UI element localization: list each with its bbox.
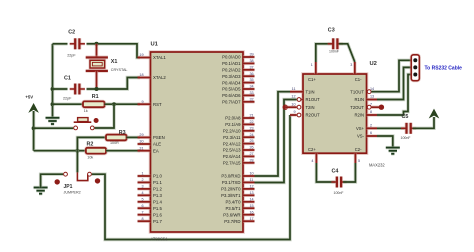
svg-text:P0.5/AD5: P0.5/AD5: [222, 87, 241, 92]
U1 pin P2.5/A13 (26) stub: [243, 148, 255, 151]
U1 pin P3.5/T1 (15) stub: [243, 206, 255, 209]
svg-text:P3.1/TXD: P3.1/TXD: [222, 180, 241, 185]
capacitor C4: [331, 177, 346, 188]
svg-text:R2: R2: [87, 141, 94, 147]
wire RST node down to button: [95, 104, 114, 128]
svg-text:33: 33: [250, 91, 254, 95]
U2 pin R1IN (13) stub: [367, 98, 378, 101]
svg-text:P3.3/INT1: P3.3/INT1: [221, 193, 241, 198]
svg-text:1: 1: [141, 172, 143, 176]
wire R2 to EA: [106, 149, 140, 152]
U1 pin P3.7/RD (17) stub: [243, 219, 255, 222]
wire +5V to button: [34, 126, 74, 129]
U1 pin P2.0/A8 (21) stub: [243, 116, 255, 119]
svg-text:+5V: +5V: [25, 95, 33, 100]
svg-text:1k: 1k: [84, 109, 88, 113]
junction +5V button node: [32, 126, 36, 130]
svg-text:35: 35: [250, 78, 254, 82]
wire GND rail left: [51, 44, 54, 118]
svg-text:R2OUT: R2OUT: [306, 113, 321, 118]
ground VS-: [386, 148, 400, 154]
push-button RESET: [74, 118, 99, 123]
U1 pin P2.7/A15 (28) stub: [243, 161, 255, 164]
svg-text:R1IN: R1IN: [354, 97, 364, 102]
svg-text:10: 10: [250, 172, 254, 176]
svg-text:JUMPER2: JUMPER2: [64, 191, 81, 195]
jumper JP1 pin 1: [64, 172, 68, 176]
svg-text:29: 29: [139, 133, 143, 137]
U1 pin P0.6/AD6 (33) stub: [243, 94, 255, 97]
svg-text:P2.4/A12: P2.4/A12: [223, 141, 241, 146]
svg-text:U2: U2: [370, 61, 377, 67]
wire T2IN dangling: [285, 105, 296, 108]
wire C2 row to XTAL1: [53, 44, 141, 58]
U1 pin P1.0 (1) stub: [138, 174, 151, 177]
svg-text:U1: U1: [151, 42, 159, 48]
power +5V arrow right: [430, 110, 439, 118]
U2 pin C1- (3) stub: [353, 62, 356, 74]
svg-text:19: 19: [139, 53, 143, 57]
svg-text:P1.5: P1.5: [153, 206, 162, 211]
svg-text:P0.4/AD4: P0.4/AD4: [222, 80, 241, 85]
svg-text:VS+: VS+: [356, 126, 365, 131]
svg-text:C1-: C1-: [355, 77, 362, 82]
wire crystal bottom lead: [95, 71, 98, 89]
junction R1 rail: [51, 102, 55, 106]
svg-text:P1.4: P1.4: [153, 200, 162, 205]
U1 pin P3.6/WR (16) stub: [243, 213, 255, 216]
connector pin 1: [413, 58, 417, 62]
jumper JP1 pin 2: [88, 172, 92, 176]
U1 pin P0.1/AD1 (38) stub: [243, 62, 255, 65]
wire R3 to PSEN: [127, 136, 141, 139]
U1 pin P0.7/AD7 (32) stub: [243, 100, 255, 103]
svg-text:P1.3: P1.3: [153, 193, 162, 198]
svg-text:100nF: 100nF: [334, 191, 344, 195]
U2 R1OUT bubble: [297, 98, 301, 102]
wire T2OUT dangling: [371, 105, 380, 108]
wire C5 to +5V: [413, 117, 434, 128]
svg-text:C1: C1: [64, 75, 71, 81]
svg-text:C5: C5: [402, 114, 409, 120]
svg-text:R1: R1: [92, 94, 99, 100]
svg-text:P1.2: P1.2: [153, 187, 162, 192]
svg-text:21: 21: [250, 114, 254, 118]
jumper JP1 bracket: [77, 172, 87, 180]
svg-text:25: 25: [250, 139, 254, 143]
svg-text:11: 11: [292, 87, 296, 91]
wire ground to JP1: [41, 174, 64, 187]
U1 pin P1.4 (5) stub: [138, 200, 151, 203]
svg-text:P0.2/AD2: P0.2/AD2: [222, 68, 241, 73]
svg-text:P3.0/RXD: P3.0/RXD: [221, 174, 240, 179]
svg-text:10: 10: [291, 102, 295, 106]
junction crystal top node: [95, 42, 99, 46]
svg-text:13: 13: [370, 95, 374, 99]
U2 pin C2+ (4) stub: [315, 153, 318, 163]
jumper JP1 pad 1: [55, 179, 60, 184]
svg-text:P0.6/AD6: P0.6/AD6: [222, 93, 241, 98]
svg-text:R1OUT: R1OUT: [306, 97, 321, 102]
U1 pin RST (9) stub: [138, 102, 151, 105]
wire rail to R1: [53, 102, 84, 105]
connector pin 2: [413, 65, 417, 69]
svg-text:PSEN: PSEN: [153, 135, 165, 140]
svg-text:JP1: JP1: [64, 184, 73, 190]
svg-text:C4: C4: [332, 168, 339, 174]
U1 pin P3.4/T0 (14) stub: [243, 200, 255, 203]
svg-text:12: 12: [250, 185, 254, 189]
dangling wire end T2OUT: [379, 105, 384, 110]
microcontroller U1 AT89C51 body: [151, 52, 244, 232]
button terminal right: [90, 126, 94, 130]
svg-text:R3: R3: [119, 130, 126, 136]
svg-text:4: 4: [141, 191, 143, 195]
svg-text:3: 3: [141, 185, 143, 189]
wire VS- to ground: [377, 136, 393, 147]
svg-text:18: 18: [139, 73, 143, 77]
svg-text:P1.0: P1.0: [153, 174, 162, 179]
svg-text:5: 5: [141, 197, 143, 201]
wire +5V stem: [32, 111, 35, 151]
U1 pin P3.0/RXD (10) stub: [243, 174, 255, 177]
U2 T2IN bubble: [297, 105, 301, 109]
svg-text:T1OUT: T1OUT: [350, 89, 364, 94]
capacitor C1: [70, 84, 85, 95]
driver U2 MAX232 body: [303, 74, 367, 153]
junction R2 R3 node: [75, 149, 79, 153]
svg-text:CRYSTAL: CRYSTAL: [111, 68, 128, 72]
svg-text:P1.1: P1.1: [153, 180, 162, 185]
svg-text:R2IN: R2IN: [354, 113, 364, 118]
U1 pin P1.6 (7) stub: [138, 213, 151, 216]
U1 pin P2.4/A12 (25) stub: [243, 142, 255, 145]
U1 pin P1.7 (8) stub: [138, 219, 151, 222]
svg-text:RST: RST: [153, 102, 162, 107]
svg-text:T2OUT: T2OUT: [350, 105, 364, 110]
svg-text:XTAL2: XTAL2: [153, 75, 166, 80]
svg-text:To RS232 Cable: To RS232 Cable: [425, 65, 463, 71]
U1 pin P1.1 (2) stub: [138, 181, 151, 184]
U2 pin VS+ (2) stub: [367, 127, 378, 130]
svg-text:EA: EA: [153, 148, 159, 153]
svg-text:P1.7: P1.7: [153, 219, 162, 224]
U1 pin P0.0/AD0 (39) stub: [243, 55, 255, 58]
U1 pin EA (31) stub: [138, 149, 151, 152]
svg-text:6: 6: [370, 131, 372, 135]
U2 T1OUT bubble: [367, 90, 371, 94]
svg-text:P0.3/AD3: P0.3/AD3: [222, 74, 241, 79]
U1 pin P2.1/A9 (22) stub: [243, 123, 255, 126]
U2 T2OUT bubble: [367, 105, 371, 109]
svg-text:MAX232: MAX232: [369, 163, 385, 168]
resistor R1: [83, 101, 105, 107]
svg-text:P2.3/A11: P2.3/A11: [223, 135, 241, 140]
svg-text:31: 31: [139, 146, 143, 150]
ground JP1: [34, 188, 48, 194]
svg-text:P2.2/A10: P2.2/A10: [223, 129, 241, 134]
wire R2IN to connector: [377, 75, 411, 116]
svg-text:8: 8: [141, 217, 143, 221]
svg-text:22: 22: [250, 120, 254, 124]
U2 pin R1OUT (12) stub: [301, 98, 303, 101]
dangling wire end T2IN: [283, 105, 288, 110]
svg-text:P2.6/A14: P2.6/A14: [223, 154, 241, 159]
wire P3.0 RXD to T1IN: [255, 92, 291, 176]
svg-text:4: 4: [311, 159, 313, 163]
svg-text:6: 6: [141, 204, 143, 208]
wire node down to JP1: [76, 151, 79, 173]
U2 R2OUT bubble: [297, 113, 301, 117]
svg-text:9: 9: [293, 110, 295, 114]
svg-text:C3: C3: [328, 28, 335, 34]
wire C1 row to XTAL2: [53, 78, 141, 90]
U1 pin P3.1/TXD (11) stub: [243, 181, 255, 184]
svg-text:24: 24: [250, 133, 254, 137]
svg-text:P2.0/A8: P2.0/A8: [225, 116, 241, 121]
svg-text:36: 36: [250, 72, 254, 76]
U2 pin C2- (5) stub: [354, 153, 357, 163]
U1 pin P3.2/INT0 (12) stub: [243, 187, 255, 190]
svg-text:26: 26: [250, 146, 254, 150]
U1 pin P0.3/AD3 (36) stub: [243, 74, 255, 77]
resistor R2: [86, 148, 106, 154]
svg-text:10k: 10k: [87, 155, 93, 159]
svg-text:C2: C2: [68, 30, 75, 36]
U1 pin P2.2/A10 (23) stub: [243, 129, 255, 132]
svg-text:T1IN: T1IN: [306, 89, 315, 94]
svg-text:XTAL1: XTAL1: [153, 55, 166, 60]
connector pin 3: [413, 73, 417, 77]
wire C4 to C2-: [343, 163, 355, 182]
svg-text:P3.2/INT0: P3.2/INT0: [221, 187, 241, 192]
svg-text:VS-: VS-: [357, 134, 365, 139]
wire C2+ to C4: [316, 163, 335, 182]
svg-text:7: 7: [141, 210, 143, 214]
svg-text:100nF: 100nF: [329, 50, 339, 54]
resistor R3: [106, 135, 127, 141]
svg-text:11: 11: [250, 178, 254, 182]
U1 pin XTAL1 (19) stub: [138, 56, 151, 59]
svg-text:100R: 100R: [110, 141, 119, 145]
svg-text:23: 23: [250, 126, 254, 130]
U1 pin P1.5 (6) stub: [138, 206, 151, 209]
svg-text:C2-: C2-: [355, 147, 362, 152]
U2 pin T1IN (11) stub: [290, 90, 303, 93]
svg-text:T2IN: T2IN: [306, 105, 315, 110]
svg-text:32: 32: [250, 97, 254, 101]
svg-text:1: 1: [311, 63, 313, 67]
svg-text:30: 30: [139, 140, 143, 144]
U1 pin P2.3/A11 (24) stub: [243, 135, 255, 138]
U2 pin VS- (6) stub: [367, 134, 378, 137]
svg-text:C1+: C1+: [308, 77, 316, 82]
junction C1 rail: [51, 87, 55, 91]
U1 pin P0.2/AD2 (37) stub: [243, 68, 255, 71]
svg-text:ALE: ALE: [153, 142, 161, 147]
wire crystal top lead: [95, 44, 98, 57]
U1 pin P1.2 (3) stub: [138, 187, 151, 190]
svg-text:14: 14: [250, 197, 254, 201]
svg-text:22pF: 22pF: [63, 96, 72, 100]
svg-text:P0.0/AD0: P0.0/AD0: [222, 55, 241, 60]
svg-text:2: 2: [370, 124, 372, 128]
wire JP1 to R2OUT long: [92, 115, 290, 240]
svg-text:13: 13: [250, 191, 254, 195]
svg-text:P0.1/AD1: P0.1/AD1: [222, 61, 241, 66]
svg-text:39: 39: [250, 53, 254, 57]
connector J1 to RS232 cable: [411, 55, 419, 81]
svg-text:12: 12: [291, 95, 295, 99]
wire +5V row to R2: [34, 149, 86, 152]
svg-text:2: 2: [141, 178, 143, 182]
U2 pin R2IN (8) stub: [367, 113, 378, 116]
power +5V arrow left: [29, 104, 38, 112]
svg-text:5: 5: [358, 159, 360, 163]
svg-text:P3.6/WR: P3.6/WR: [223, 212, 240, 217]
svg-text:16: 16: [250, 210, 254, 214]
wire R1 to RST: [105, 102, 141, 105]
junction crystal bottom node: [95, 87, 99, 91]
wire P3.1 TXD to R1OUT: [255, 100, 297, 183]
svg-text:P2.7/A15: P2.7/A15: [223, 161, 241, 166]
svg-text:9: 9: [141, 100, 143, 104]
svg-text:27: 27: [250, 152, 254, 156]
svg-text:17: 17: [250, 217, 254, 221]
svg-text:22pF: 22pF: [67, 53, 76, 57]
U2 pin R2OUT (9) stub: [290, 113, 297, 116]
button terminal left: [74, 126, 78, 130]
U1 pin ALE (30) stub: [138, 142, 151, 145]
U1 pin P0.4/AD4 (35) stub: [243, 81, 255, 84]
capacitor C2: [70, 38, 85, 49]
svg-text:P3.5/T1: P3.5/T1: [225, 206, 241, 211]
capacitor C5: [401, 123, 416, 134]
svg-text:X1: X1: [111, 59, 118, 65]
wire C3 right to pin3: [339, 44, 355, 62]
U1 pin P2.6/A14 (27) stub: [243, 155, 255, 158]
svg-text:37: 37: [250, 65, 254, 69]
svg-text:8: 8: [370, 110, 372, 114]
U1 pin P1.3 (4) stub: [138, 194, 151, 197]
jumper JP1 pad 2: [95, 178, 100, 183]
svg-text:P0.7/AD7: P0.7/AD7: [222, 100, 241, 105]
svg-text:P2.5/A13: P2.5/A13: [223, 148, 241, 153]
wire node up to R3: [77, 137, 106, 150]
svg-text:P3.4/T0: P3.4/T0: [225, 200, 241, 205]
svg-text:3: 3: [350, 63, 352, 67]
wire T1OUT to connector: [371, 60, 411, 91]
svg-text:C2+: C2+: [308, 147, 316, 152]
svg-text:P1.6: P1.6: [153, 212, 162, 217]
U1 pin P3.3/INT1 (13) stub: [243, 194, 255, 197]
crystal X1: [86, 57, 108, 71]
svg-text:38: 38: [250, 59, 254, 63]
svg-text:P3.7/RD: P3.7/RD: [224, 219, 240, 224]
svg-text:AT89C51: AT89C51: [151, 236, 169, 241]
svg-text:P2.1/A9: P2.1/A9: [225, 122, 241, 127]
wire C3 left to pin1: [316, 44, 332, 62]
svg-text:34: 34: [250, 85, 254, 89]
wire VS+ to C5: [377, 127, 405, 130]
U1 pin P0.5/AD5 (34) stub: [243, 87, 255, 90]
U2 pin C1+ (1) stub: [314, 62, 317, 74]
ground rail left: [46, 118, 60, 124]
U1 pin PSEN (29) stub: [138, 136, 151, 139]
U1 pin XTAL2 (18) stub: [138, 76, 151, 79]
svg-text:100nF: 100nF: [401, 136, 411, 140]
svg-text:15: 15: [250, 204, 254, 208]
svg-text:28: 28: [250, 158, 254, 162]
capacitor C3: [328, 38, 343, 49]
junction RST button node: [112, 102, 116, 106]
wire R1IN to connector: [377, 67, 411, 99]
